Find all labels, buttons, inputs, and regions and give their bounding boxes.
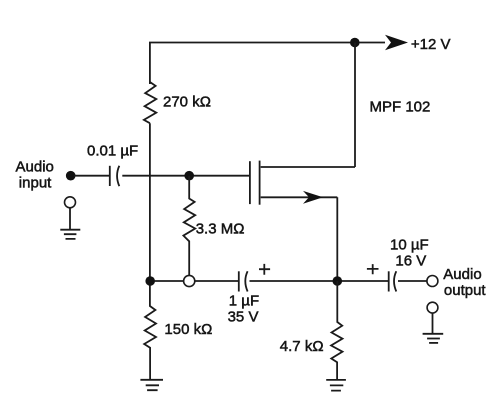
svg-text:16 V: 16 V	[395, 252, 426, 269]
svg-text:35 V: 35 V	[228, 308, 259, 325]
svg-text:0.01 µF: 0.01 µF	[87, 143, 138, 160]
svg-text:4.7 kΩ: 4.7 kΩ	[280, 338, 324, 355]
svg-text:output: output	[444, 282, 487, 299]
svg-text:10 µF: 10 µF	[390, 237, 429, 254]
svg-text:input: input	[19, 174, 52, 191]
svg-text:Audio: Audio	[16, 159, 54, 176]
svg-text:3.3 MΩ: 3.3 MΩ	[196, 221, 245, 238]
svg-text:MPF 102: MPF 102	[370, 99, 431, 116]
svg-text:Audio: Audio	[443, 266, 481, 283]
svg-text:+12 V: +12 V	[411, 36, 451, 53]
svg-text:150 kΩ: 150 kΩ	[164, 321, 212, 338]
svg-text:270 kΩ: 270 kΩ	[163, 93, 211, 110]
svg-text:1 µF: 1 µF	[229, 293, 259, 310]
